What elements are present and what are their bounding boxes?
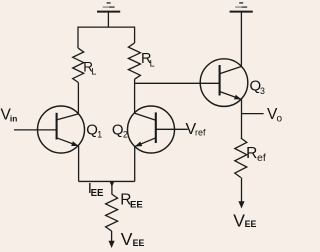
svg-text:o: o: [277, 114, 283, 125]
svg-text:EE: EE: [133, 238, 145, 248]
svg-text:Q: Q: [112, 121, 124, 138]
svg-text:ef: ef: [257, 152, 266, 164]
svg-text:3: 3: [260, 86, 265, 96]
svg-text:EE: EE: [91, 188, 104, 199]
svg-text:R: R: [246, 145, 257, 162]
svg-text:V: V: [121, 229, 133, 249]
svg-text:1: 1: [97, 130, 102, 140]
svg-text:ref: ref: [195, 128, 206, 138]
svg-text:L: L: [91, 67, 96, 77]
svg-text:Q: Q: [86, 122, 98, 139]
svg-text:V: V: [233, 210, 245, 230]
svg-text:L: L: [150, 59, 155, 69]
svg-text:in: in: [10, 114, 17, 124]
svg-text:EE: EE: [130, 199, 143, 210]
svg-text:2: 2: [123, 130, 128, 140]
svg-text:EE: EE: [245, 219, 257, 229]
